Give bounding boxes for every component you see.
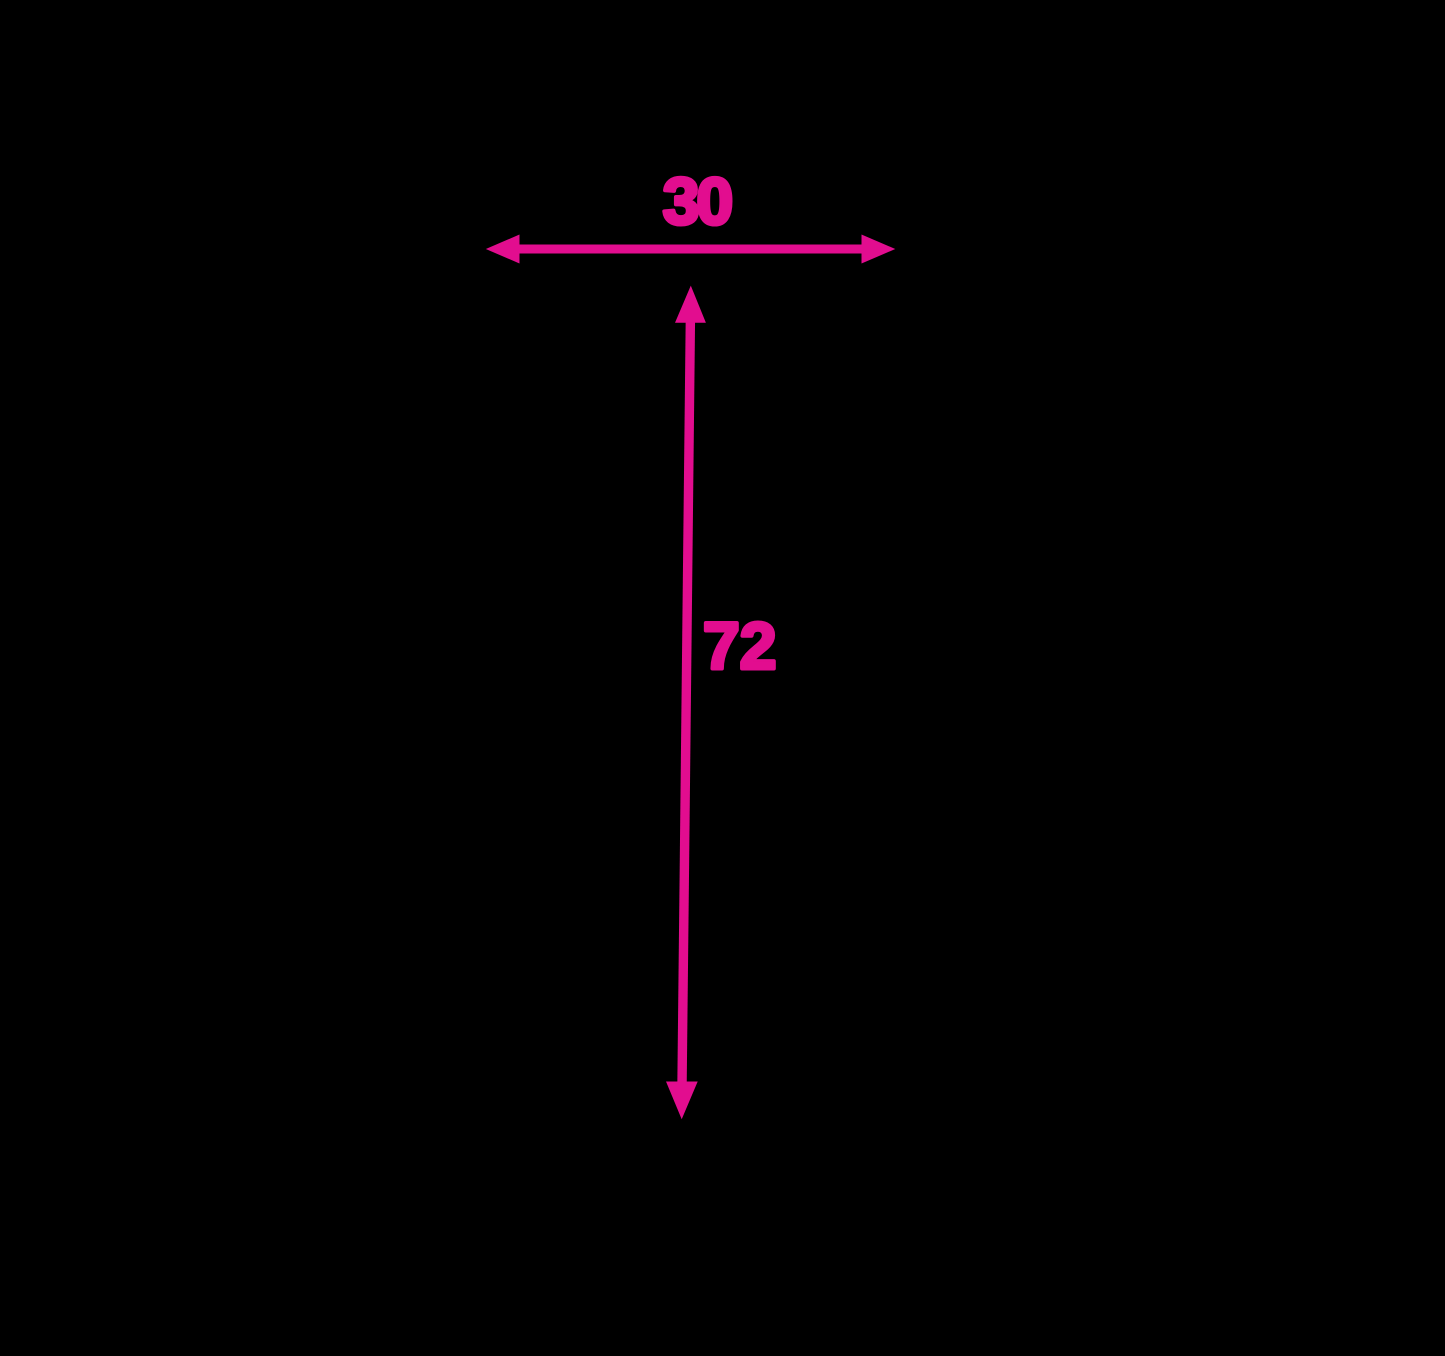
vertical dimension arrow (height) [666, 286, 706, 1120]
svg-text:72: 72 [703, 609, 776, 683]
arrowhead top [675, 286, 706, 323]
wire: vertical shaft [682, 318, 690, 1086]
horizontal dimension arrow (width) [486, 235, 896, 264]
arrowhead left [486, 235, 520, 264]
arrowhead right [862, 235, 896, 264]
svg-text:30: 30 [663, 164, 731, 238]
arrowhead bottom [666, 1082, 698, 1120]
wire: horizontal shaft [515, 245, 866, 254]
